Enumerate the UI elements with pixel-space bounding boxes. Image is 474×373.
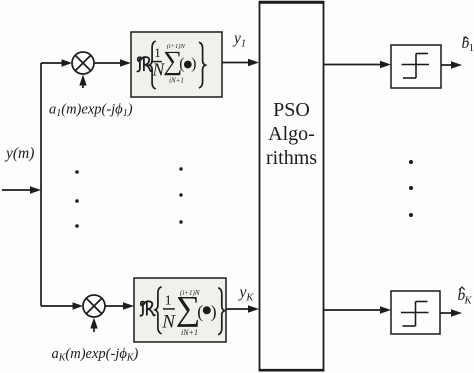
block: hard limiter 1 <box>391 45 441 88</box>
wire: PSO to hard limiter 2 <box>324 306 391 313</box>
symbol: signum step in limiter 1 <box>402 54 430 79</box>
math content box 1: Re{1/N sum (.)} <box>137 41 205 89</box>
dots: middle ellipsis column <box>179 167 182 223</box>
right brace <box>218 288 224 335</box>
multiplier M1 (circle with X) <box>72 52 94 74</box>
label PSO Algorithms text <box>266 99 317 169</box>
label b-hat 1 <box>462 35 474 54</box>
wire: vertical bus <box>40 63 42 306</box>
svg-text:K: K <box>464 296 473 307</box>
dots: right ellipsis column <box>409 160 413 217</box>
wire: PSO to hard limiter 1 <box>324 61 391 68</box>
svg-text:rithms: rithms <box>266 147 317 169</box>
label y1 output of box 1 <box>232 30 246 50</box>
node y(m) input label <box>4 145 34 162</box>
left brace <box>155 287 161 334</box>
svg-text:(: ( <box>197 301 203 321</box>
left brace <box>149 41 155 89</box>
wire: M1 to correlator box 1 <box>94 59 131 66</box>
svg-text:N: N <box>161 312 176 333</box>
wire: carrier arrow up into M1 <box>79 75 86 89</box>
svg-text:a1(m)exp(-jϕ1): a1(m)exp(-jϕ1) <box>49 102 133 120</box>
wire: M2 to correlator box 2 <box>105 302 134 309</box>
svg-text:iN+1: iN+1 <box>181 328 198 337</box>
svg-text:(i+1)N: (i+1)N <box>180 289 200 297</box>
label aK(m)exp(-j phiK) <box>52 346 139 364</box>
block: correlator box 2 <box>134 278 226 342</box>
Fraktur R glyph <box>137 57 152 71</box>
label yK output of box 2 <box>238 284 255 304</box>
svg-text:1: 1 <box>469 43 474 54</box>
svg-text:(: ( <box>179 56 184 73</box>
svg-text:y1: y1 <box>232 30 246 50</box>
svg-text:): ) <box>191 56 196 73</box>
wire: input arrow into bus <box>2 186 41 193</box>
wire: limiter 1 output arrow <box>441 61 462 68</box>
math content box 2: Re{1/N sum (.)} <box>140 287 224 337</box>
block: hard limiter 2 <box>391 291 440 334</box>
multiplier M2 (circle with X) <box>83 295 105 317</box>
block: PSO Algorithms <box>259 2 325 370</box>
wire: limiter 2 output arrow <box>440 309 462 316</box>
dots: left ellipsis column <box>75 170 79 228</box>
label a1(m)exp(-j phi1) <box>49 102 133 120</box>
block: correlator box 1 <box>131 32 222 97</box>
svg-text:1: 1 <box>154 45 161 60</box>
wire: bus to multiplier M1 <box>41 59 72 66</box>
svg-text:iN+1: iN+1 <box>169 76 184 84</box>
wire: box2 to PSO block <box>226 305 259 312</box>
svg-text:): ) <box>211 301 217 321</box>
right brace <box>199 42 205 88</box>
Fraktur R glyph <box>140 301 155 315</box>
svg-text:PSO: PSO <box>273 99 310 121</box>
symbol: signum step in limiter 2 <box>401 302 429 327</box>
svg-text:(i+1)N: (i+1)N <box>167 43 186 50</box>
label b-hat K <box>458 287 473 307</box>
svg-text:Algo-: Algo- <box>268 123 315 145</box>
wire: bus to multiplier M2 <box>41 302 83 309</box>
svg-text:1: 1 <box>165 293 172 308</box>
wire: box1 to PSO block <box>222 59 259 66</box>
svg-text:y(m): y(m) <box>4 145 34 162</box>
wire: carrier arrow up into M2 <box>90 318 97 333</box>
svg-text:yK: yK <box>238 284 255 304</box>
svg-text:aK(m)exp(-jϕK): aK(m)exp(-jϕK) <box>52 346 139 364</box>
